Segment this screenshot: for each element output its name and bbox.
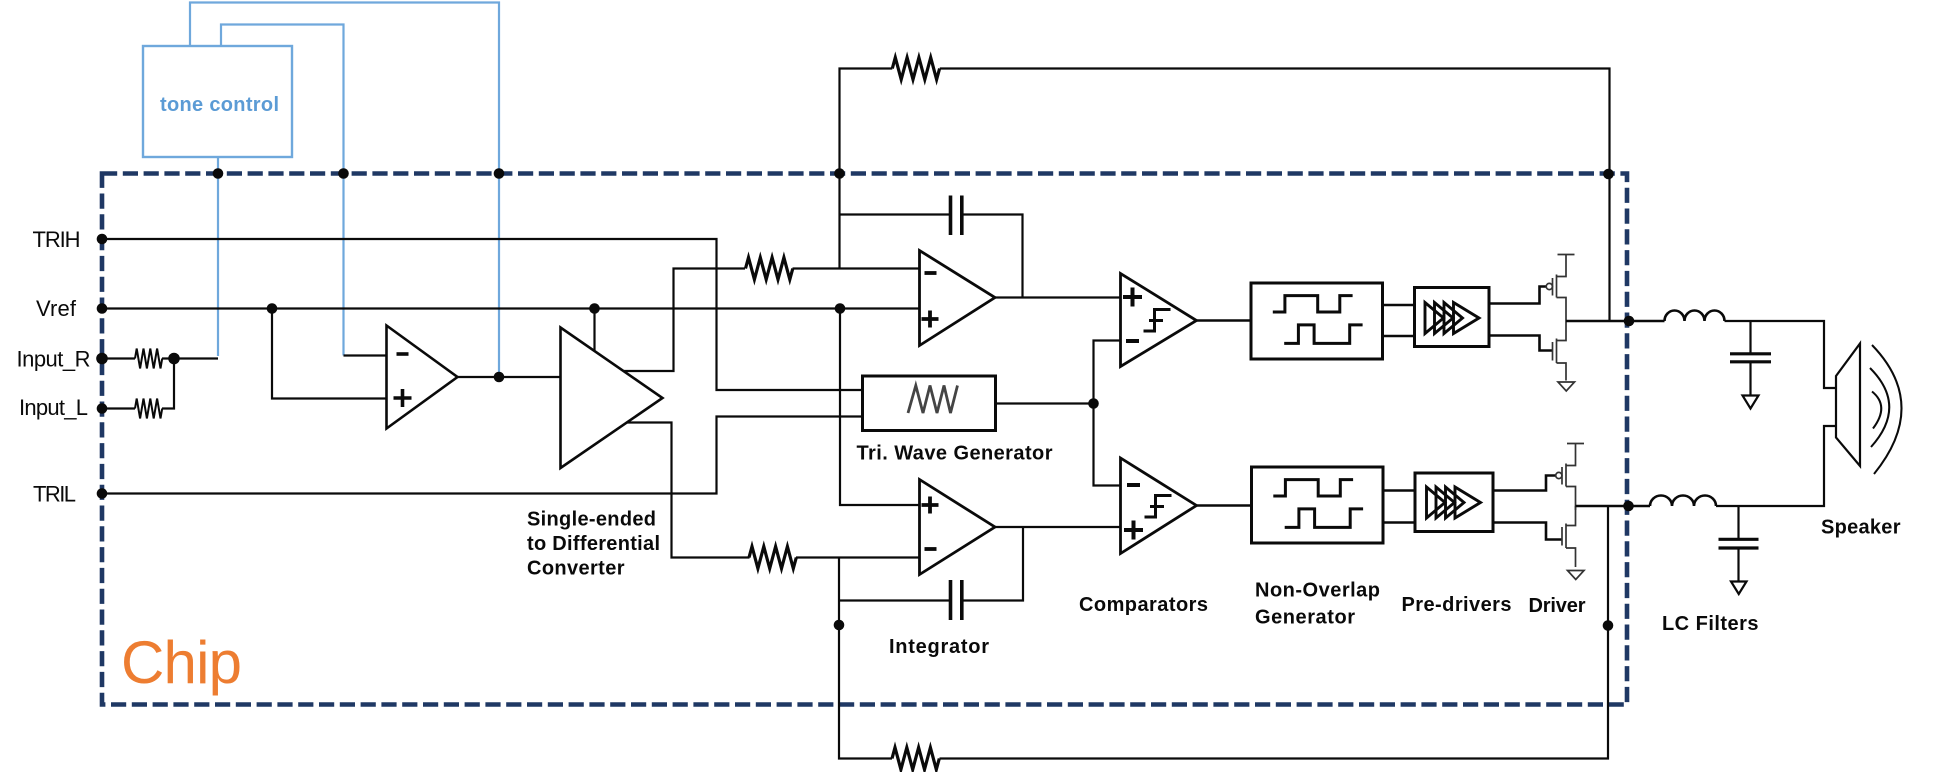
node dot driver 1 output at border <box>1624 316 1635 327</box>
wire pre-driver 2 to PMOS gate <box>1493 476 1556 491</box>
non-overlap box 1 waveform top <box>1273 296 1353 312</box>
op-amp U1 <box>387 326 458 429</box>
node dot Vref tap converter <box>589 303 600 314</box>
ground Q2 <box>1558 382 1575 391</box>
svg-text:Converter: Converter <box>527 558 625 580</box>
wire tri wave generator output <box>996 402 1094 404</box>
wire converter bottom output to integrator 2 resistor <box>627 423 750 558</box>
node dot border crossing blue wire 2 <box>338 168 349 179</box>
ground C4 <box>1731 582 1747 595</box>
svg-text:Integrator: Integrator <box>889 636 989 658</box>
svg-text:Single-ended: Single-ended <box>527 509 656 531</box>
op-amp U1 plus sign <box>394 389 412 407</box>
wire blue tone control to op-amp inverting input <box>221 25 344 356</box>
tri wave symbol <box>908 386 958 414</box>
wire driver 2 output <box>1576 505 1651 508</box>
svg-text:Generator: Generator <box>1255 607 1355 629</box>
svg-text:Chip: Chip <box>121 629 242 696</box>
svg-text:Tri. Wave Generator: Tri. Wave Generator <box>857 443 1053 465</box>
chip dashed border <box>102 174 1627 705</box>
wire converter top output to integrator 1 resistor <box>624 269 745 372</box>
wire integrator 2 output to comparator 2 <box>995 526 1121 528</box>
node dot Input_R pin <box>96 353 108 365</box>
non-overlap box 1 waveform bottom <box>1284 325 1362 344</box>
integrator op-amp U3 <box>920 251 996 346</box>
comparator U6 <box>1121 458 1197 554</box>
resistor R1 (Input_R) <box>135 349 162 369</box>
resistor R4 (integrator 2 input) <box>749 547 796 569</box>
transistor Q3 PMOS <box>1556 444 1584 511</box>
svg-text:Driver: Driver <box>1529 595 1586 617</box>
node dot TRIH pin <box>97 234 108 245</box>
node dot feedback left lower <box>834 620 845 631</box>
wire Input_L lead <box>102 407 135 409</box>
op-amp U3 minus sign <box>925 271 937 275</box>
wire L2 to speaker <box>1716 426 1836 506</box>
wire Vref rail <box>102 307 920 309</box>
wire Vref to integrator 2 non-inverting input <box>840 309 920 506</box>
wire top feedback vertical left <box>840 69 893 269</box>
svg-text:Comparators: Comparators <box>1079 594 1208 616</box>
op-amp U3 plus sign <box>922 311 939 328</box>
node dot feedback crossing top border <box>834 168 845 179</box>
resistor R6 (bottom feedback) <box>892 748 939 770</box>
tone control box <box>143 46 292 157</box>
inductor L1 <box>1665 311 1725 322</box>
comparator U5 hysteresis symbol <box>1144 310 1171 332</box>
wire TRIL to tri-wave generator bottom input <box>102 417 863 494</box>
wire TRIH to tri-wave generator top input <box>102 239 863 390</box>
capacitor C1 plates <box>951 196 962 236</box>
non-overlap box 2 waveform bottom <box>1285 509 1363 528</box>
capacitor C2 plates <box>951 580 962 620</box>
ground C3 <box>1743 396 1759 409</box>
capacitor C4 plates <box>1719 539 1759 548</box>
wire op-amp output to converter <box>458 376 561 378</box>
wire non-overlap 2 to pre-driver 2 lower <box>1383 521 1415 524</box>
op-amp U4 plus sign <box>922 497 939 514</box>
node dot Vref pin <box>97 303 108 314</box>
svg-text:tone control: tone control <box>160 94 279 116</box>
wire tri wave to comparator 2 inverting input <box>1094 404 1121 486</box>
capacitor C4 lead <box>1737 506 1739 538</box>
svg-text:Input_L: Input_L <box>19 395 88 420</box>
wire integrator 1 output to comparator 1 <box>995 296 1121 298</box>
capacitor C4 to ground <box>1737 549 1739 581</box>
resistor R3 (integrator 1 input) <box>746 258 793 280</box>
wire tri wave to comparator 1 inverting input <box>1094 341 1121 404</box>
node dot Input_L pin <box>97 403 108 414</box>
comparator U5 <box>1121 274 1197 367</box>
svg-text:Pre-drivers: Pre-drivers <box>1402 594 1512 616</box>
wire pre-driver 2 to NMOS gate <box>1493 523 1562 540</box>
wire pre-driver 1 to PMOS gate <box>1489 287 1546 304</box>
non-overlap generator box 1 <box>1251 283 1383 359</box>
wire bottom feedback to right driver output <box>940 507 1609 759</box>
capacitor C2 loop wires <box>839 599 950 601</box>
node dot driver 2 output at border <box>1623 501 1634 512</box>
wire non-overlap 1 to pre-driver 1 lower <box>1383 335 1415 338</box>
comparator U5 plus sign <box>1123 288 1142 307</box>
wire blue tone control to op-amp output node <box>190 3 499 378</box>
speaker sound arc middle <box>1870 368 1889 447</box>
tri wave generator box <box>863 376 996 431</box>
comparator U6 minus sign <box>1127 483 1140 487</box>
transistor Q2 NMOS <box>1553 321 1567 381</box>
svg-text:Speaker: Speaker <box>1821 517 1901 539</box>
node dot feedback crossing top border right <box>1603 169 1614 180</box>
wire resistor R4 to integrator 2 inverting input <box>796 556 920 558</box>
node dot Vref tap integrator 2 <box>835 303 846 314</box>
node dot input resistor junction <box>168 353 180 365</box>
wire comparator 2 output <box>1197 504 1252 507</box>
integrator op-amp U4 <box>920 480 996 575</box>
svg-text:LC Filters: LC Filters <box>1662 613 1759 635</box>
ground Q4 <box>1568 571 1585 580</box>
pre-driver box 1 <box>1415 288 1490 347</box>
node dot Vref tap op-amp <box>267 303 278 314</box>
svg-text:Input_R: Input_R <box>17 347 91 372</box>
resistor R2 (Input_L) <box>135 399 162 419</box>
resistor R5 (top feedback) <box>892 58 939 80</box>
node dot feedback right lower <box>1603 620 1614 631</box>
wire tone control to op-amp inverting input <box>344 354 387 356</box>
wire Vref tap to op-amp non-inverting input <box>272 309 387 399</box>
wire blue tone control to Input_R node <box>217 157 219 356</box>
wire Input_R lead <box>102 357 135 359</box>
wire Input_L to junction <box>162 359 174 409</box>
non-overlap box 2 waveform top <box>1273 480 1353 496</box>
wire comparator 1 output <box>1197 319 1252 322</box>
op-amp U1 minus sign <box>397 352 409 356</box>
wire Vref tap into converter <box>593 309 595 352</box>
comparator U6 plus sign <box>1124 521 1143 540</box>
capacitor C3 plates <box>1730 354 1771 362</box>
svg-text:to Differential: to Differential <box>527 533 660 555</box>
pre-driver 2 buffer triangles <box>1427 487 1481 518</box>
comparator U5 minus sign <box>1126 339 1139 343</box>
non-overlap generator box 2 <box>1252 467 1384 543</box>
pre-driver box 2 <box>1415 473 1493 532</box>
capacitor C1 loop wires <box>840 213 950 215</box>
op-amp U4 minus sign <box>925 547 937 551</box>
transistor Q4 NMOS <box>1562 506 1576 567</box>
wire top feedback to right driver output <box>940 69 1610 321</box>
speaker sound arc large <box>1872 345 1902 474</box>
svg-text:Vref: Vref <box>36 296 77 321</box>
wire non-overlap 1 to pre-driver 1 upper <box>1383 304 1415 307</box>
speaker cone <box>1836 344 1860 467</box>
svg-text:TRIH: TRIH <box>33 227 81 252</box>
node dot border crossing blue wire 1 <box>494 168 505 179</box>
node dot op-amp output <box>494 372 505 383</box>
wire resistor R3 to integrator 1 inverting input <box>793 267 920 269</box>
capacitor C3 to ground <box>1749 363 1751 395</box>
comparator U6 hysteresis symbol <box>1145 496 1172 518</box>
transistor Q1 PMOS <box>1546 255 1574 322</box>
node dot border crossing blue wire 3 <box>213 168 224 179</box>
node dot TRIL pin <box>97 488 108 499</box>
wire bottom feedback vertical left <box>839 558 892 759</box>
speaker sound arc small <box>1872 392 1881 429</box>
svg-text:Non-Overlap: Non-Overlap <box>1255 580 1380 602</box>
wire driver 1 output <box>1566 320 1665 323</box>
inductor L2 <box>1650 496 1716 507</box>
wire Input_R node to tone control <box>162 357 218 359</box>
single-ended to differential converter U2 <box>561 328 663 469</box>
pre-driver 1 buffer triangles <box>1425 303 1479 334</box>
svg-text:TRIL: TRIL <box>33 482 76 507</box>
wire L1 to speaker <box>1725 321 1837 388</box>
wire pre-driver 1 to NMOS gate <box>1489 336 1553 351</box>
capacitor C3 lead <box>1749 321 1751 353</box>
wire non-overlap 2 to pre-driver 2 upper <box>1383 489 1415 492</box>
node dot tri wave output <box>1088 398 1099 409</box>
